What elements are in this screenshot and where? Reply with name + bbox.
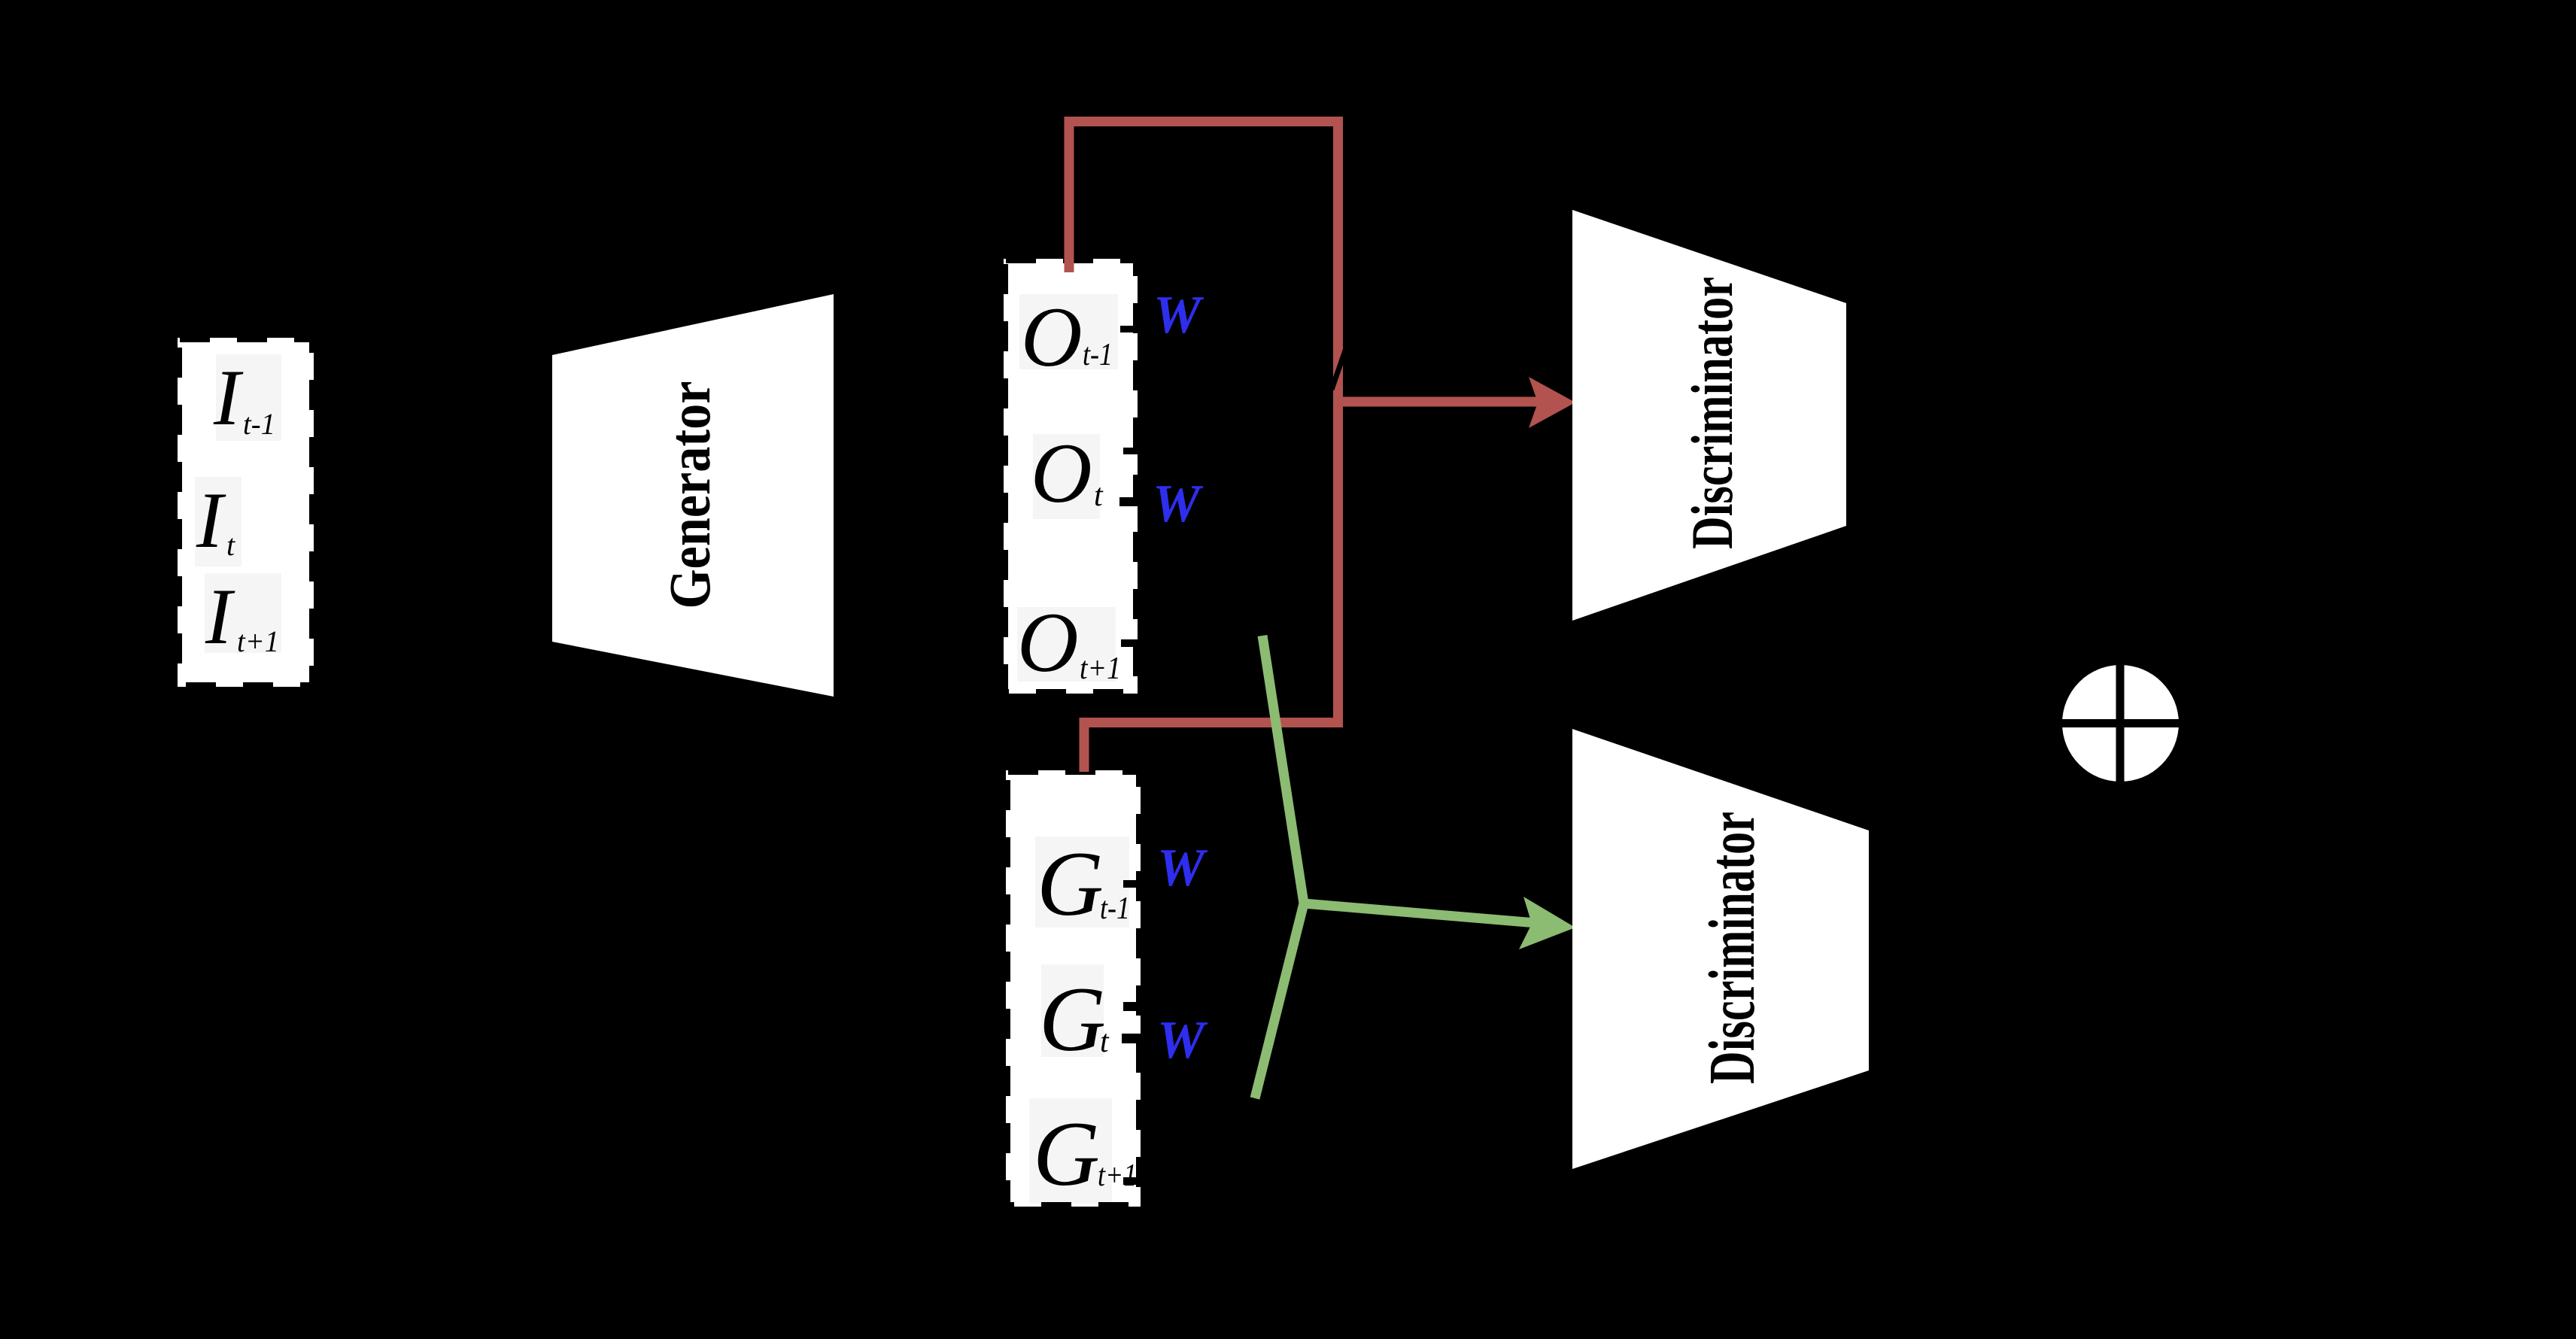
svg-text:Generator: Generator: [657, 381, 722, 609]
svg-text:W: W: [1157, 839, 1208, 897]
svg-text:I: I: [213, 354, 244, 442]
lower discriminator trapezoid: [1572, 729, 1869, 1169]
oplus sum node circle: [2062, 665, 2179, 782]
svg-text:I: I: [196, 476, 226, 564]
tick after G_t-1: [1123, 880, 1141, 888]
green branch up: [1262, 636, 1304, 903]
svg-text:t: t: [226, 528, 235, 562]
svg-text:W: W: [1157, 1011, 1208, 1070]
tick after G_t+1: [1123, 1177, 1144, 1185]
red arrow shaft to upper discriminator: [1338, 397, 1539, 407]
svg-text:t-1: t-1: [1100, 891, 1130, 926]
tick after O_t+1: [1121, 639, 1138, 647]
input frame stack box (dashed): [178, 338, 314, 687]
output frame stack box O (dashed): [1004, 259, 1138, 694]
tick after O_t: [1123, 448, 1138, 454]
svg-text:O: O: [1031, 427, 1092, 521]
red arrowhead: [1529, 377, 1575, 428]
upper discriminator trapezoid: [1572, 210, 1846, 621]
svg-text:G: G: [1039, 967, 1106, 1070]
red recurrence loop: [1069, 122, 1338, 773]
green branch down-left: [1255, 903, 1304, 1098]
svg-text:W: W: [1153, 286, 1204, 345]
svg-text:W: W: [1153, 475, 1204, 533]
tick before W2: [1119, 497, 1138, 506]
svg-text:t+1: t+1: [237, 624, 279, 658]
svg-text:G: G: [1033, 1102, 1100, 1205]
generator trapezoid: [552, 294, 834, 697]
svg-text:t-1: t-1: [243, 407, 275, 441]
green arrowhead: [1519, 897, 1575, 949]
svg-text:t+1: t+1: [1098, 1158, 1137, 1193]
tick after G_t: [1123, 1002, 1141, 1011]
black slash over red line: [1332, 348, 1346, 390]
oplus vertical bar: [2116, 665, 2125, 782]
svg-text:O: O: [1021, 290, 1083, 384]
tick before W4: [1122, 1034, 1144, 1043]
svg-text:Discriminator: Discriminator: [1695, 812, 1768, 1084]
svg-text:I: I: [205, 572, 235, 660]
ground truth stack box G (dashed): [1006, 770, 1141, 1207]
svg-text:O: O: [1017, 596, 1079, 690]
svg-text:t-1: t-1: [1083, 338, 1113, 372]
svg-text:t: t: [1094, 478, 1104, 513]
svg-text:Discriminator: Discriminator: [1679, 277, 1745, 549]
oplus horizontal bar: [2061, 719, 2180, 727]
tick after O_t-1: [1120, 326, 1136, 332]
green arrow shaft to lower discriminator: [1304, 903, 1536, 923]
svg-text:t+1: t+1: [1080, 651, 1121, 686]
svg-text:G: G: [1037, 832, 1104, 935]
svg-text:t: t: [1100, 1025, 1110, 1059]
